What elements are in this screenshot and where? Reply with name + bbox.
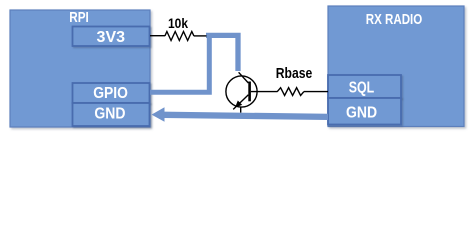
wire node to collector (blue connector) xyxy=(206,35,238,71)
wire GPIO to node (blue connector) xyxy=(150,35,209,92)
collector lead xyxy=(239,72,249,83)
svg-text:GPIO: GPIO xyxy=(93,85,128,102)
wire Rbase to SQL xyxy=(304,91,328,93)
arrowhead xyxy=(152,107,165,121)
svg-text:SQL: SQL xyxy=(349,79,375,96)
svg-text:RX RADIO: RX RADIO xyxy=(366,12,423,28)
resistor Rbase xyxy=(277,88,304,96)
wire resistor to node xyxy=(194,35,207,37)
svg-text:GND: GND xyxy=(94,105,125,122)
emitter lead xyxy=(233,95,248,110)
pin box GND (RX RADIO) xyxy=(328,98,401,125)
svg-text:3V3: 3V3 xyxy=(97,29,126,46)
wire 3V3 to resistor xyxy=(150,35,165,37)
svg-text:10k: 10k xyxy=(168,15,188,31)
svg-text:RPI: RPI xyxy=(69,10,89,26)
RX RADIO box xyxy=(328,6,464,127)
wire GND arrow (RX RADIO GND to RPI GND) xyxy=(164,115,329,117)
pin box GND (RPI) xyxy=(73,103,150,126)
transistor Q1 (NPN) xyxy=(226,72,278,112)
resistor 10k xyxy=(165,32,194,41)
svg-text:Rbase: Rbase xyxy=(276,65,313,82)
pin box 3V3 xyxy=(73,27,150,47)
pin box GPIO xyxy=(73,83,150,103)
RPI box xyxy=(10,10,150,127)
emitter arrowhead xyxy=(235,101,242,108)
svg-text:GND: GND xyxy=(346,105,377,122)
base bar xyxy=(248,82,251,102)
base lead xyxy=(251,91,278,93)
pin box SQL xyxy=(328,75,401,98)
emitter stub to GND wire xyxy=(240,107,242,113)
transistor body circle xyxy=(226,76,257,107)
